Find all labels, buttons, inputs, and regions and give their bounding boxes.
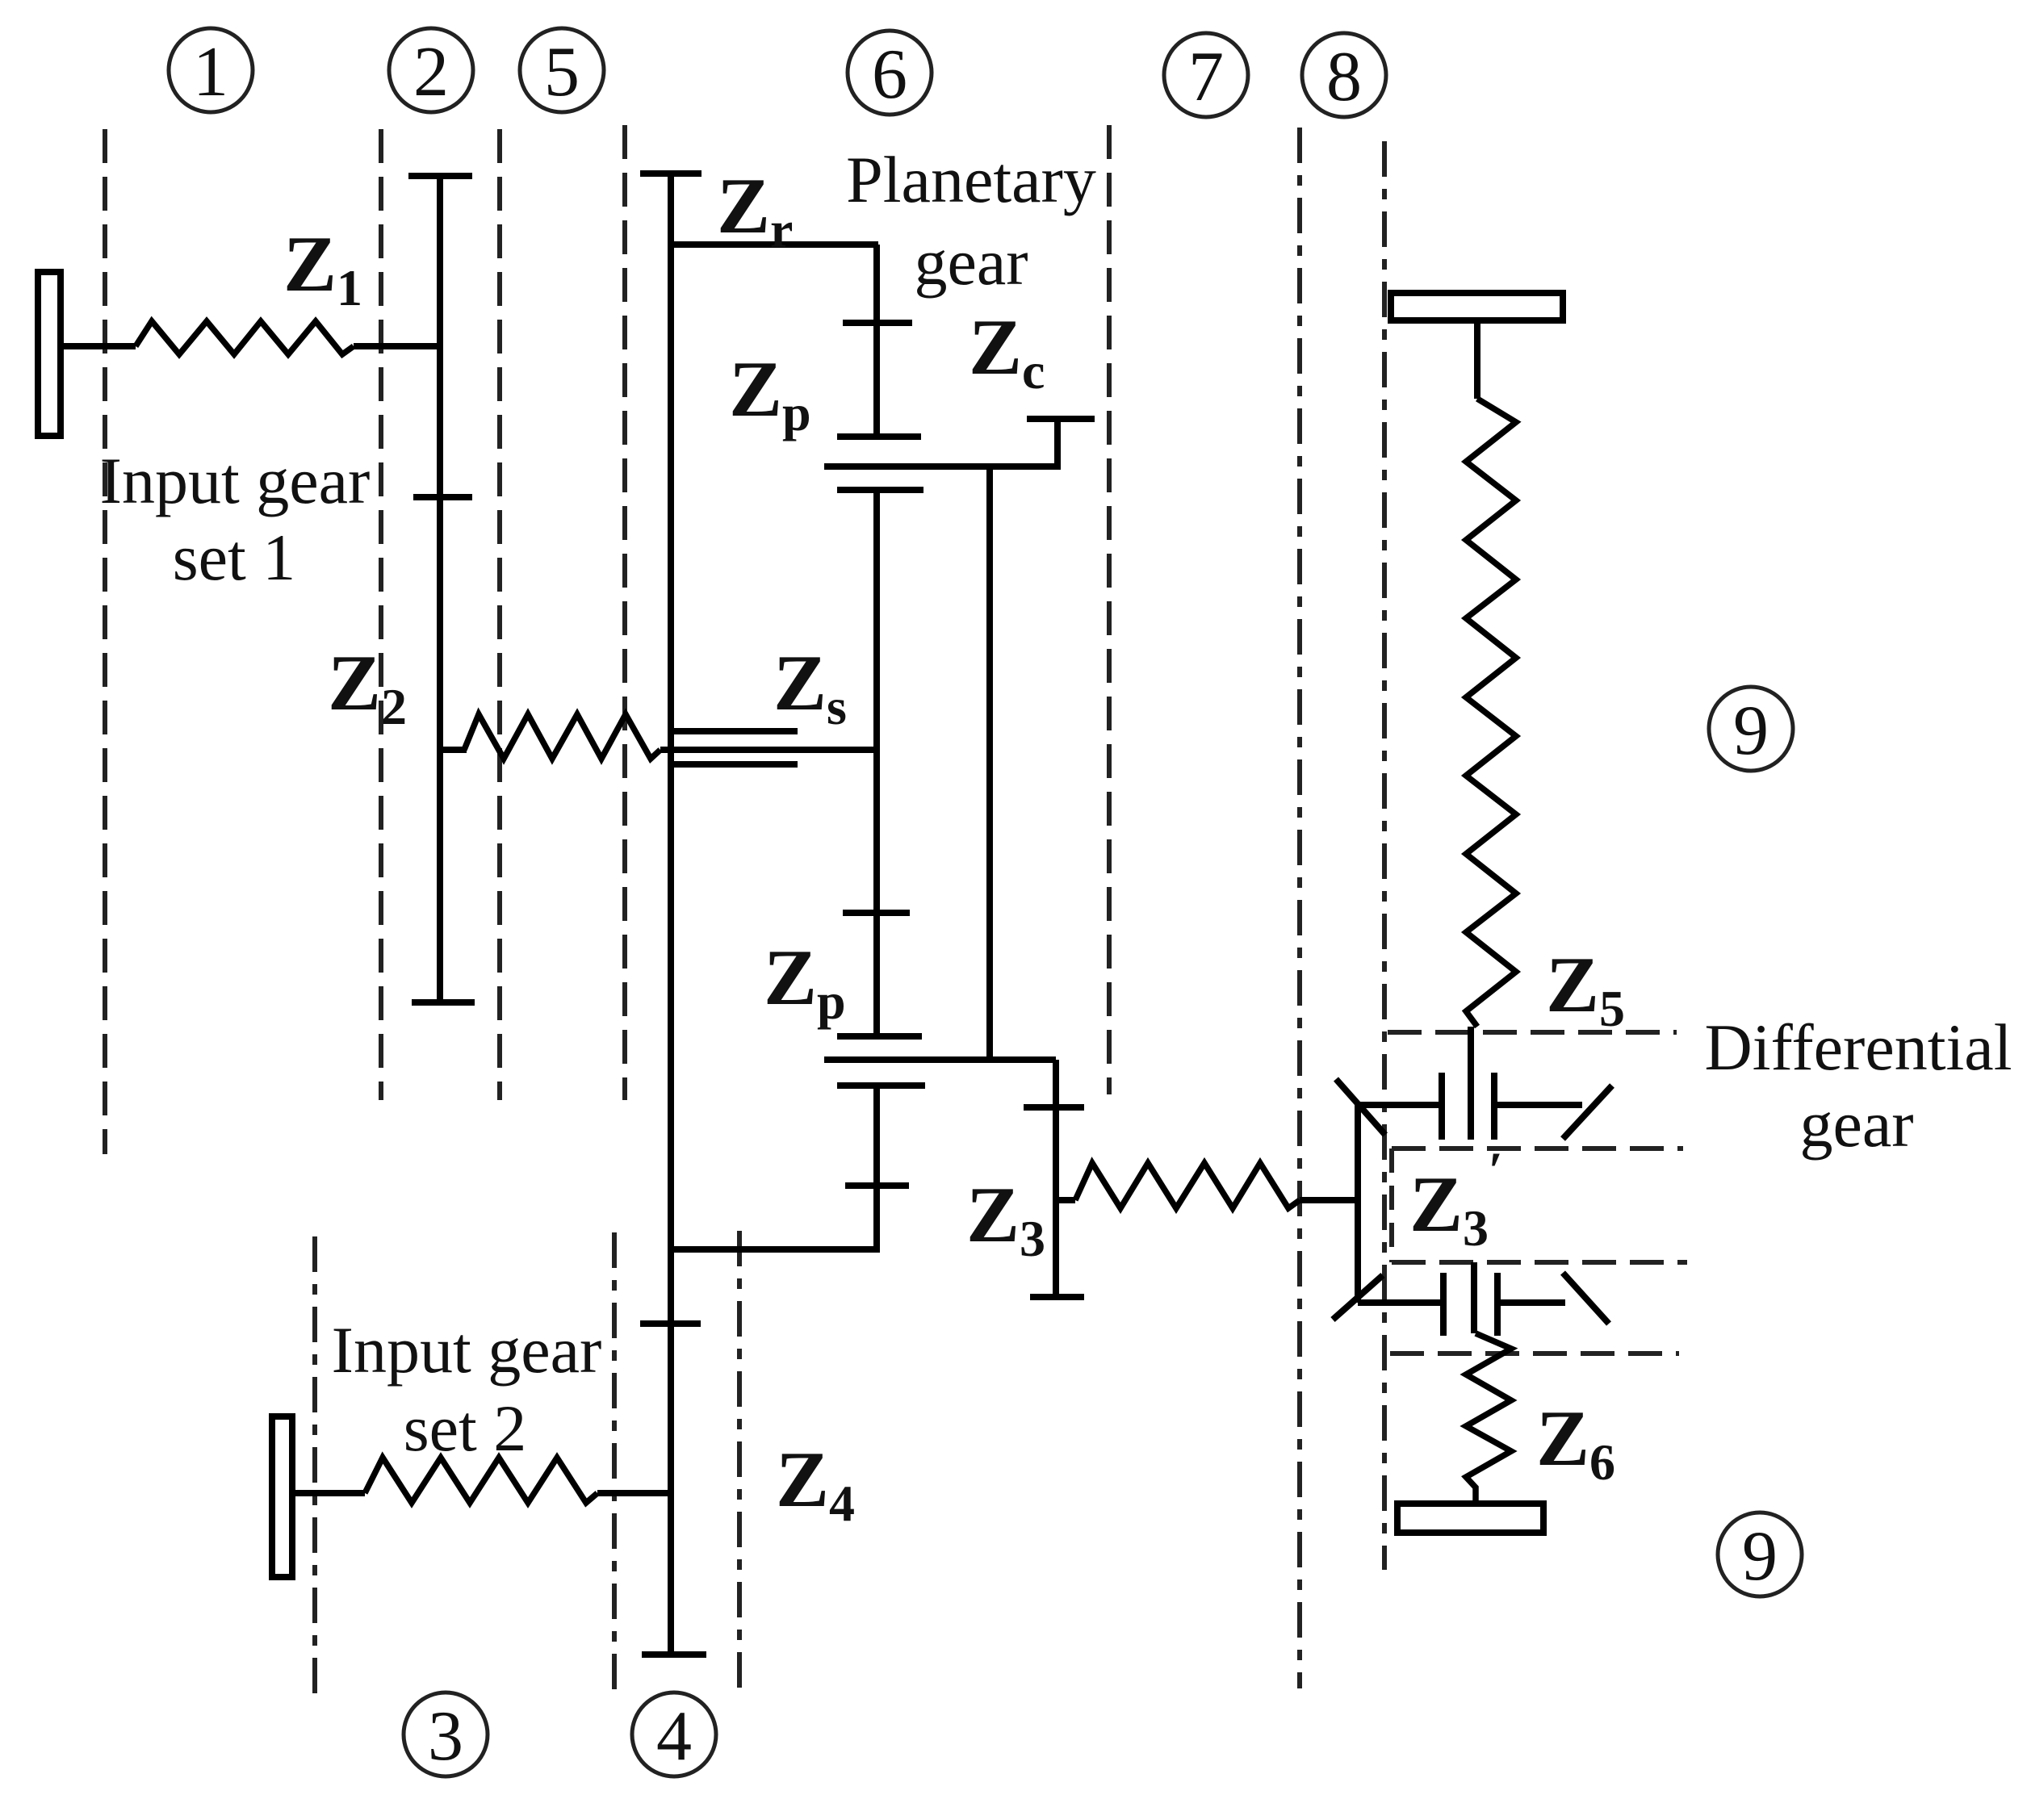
- differential top-left bevel diagonal: [1336, 1079, 1385, 1135]
- value label Zp lower: [764, 934, 846, 1030]
- svg-text:8: 8: [1326, 38, 1362, 116]
- node label circled 6: [848, 31, 932, 115]
- shaft axis 8 dashed line: [1382, 141, 1387, 1570]
- svg-text:set 1: set 1: [173, 521, 296, 594]
- upper bevel mesh right plate: [1491, 1073, 1497, 1140]
- svg-text:Input gear: Input gear: [100, 444, 371, 517]
- shaft 4 line: [668, 174, 674, 1655]
- shaft axis 7 dashed line: [1297, 128, 1302, 1688]
- svg-text:5: 5: [544, 33, 580, 111]
- carrier upper bearing top plate: [837, 433, 921, 440]
- svg-text:6: 6: [872, 36, 907, 114]
- node label circled 7: [1164, 33, 1248, 117]
- value label Z3 prime: [1409, 1141, 1503, 1257]
- wire spring Z5 to bevel mesh: [1468, 1027, 1474, 1140]
- value label Zs: [773, 639, 847, 735]
- spring mesh Z5: [1466, 399, 1516, 1027]
- spring mesh Z3-Z3': [1075, 1163, 1300, 1208]
- value label Z6: [1536, 1395, 1615, 1491]
- value label Z3: [966, 1171, 1045, 1267]
- node label circled 9: [1718, 1512, 1802, 1596]
- shaft axis 6 dashed line: [1107, 125, 1112, 1094]
- value label Z1: [283, 220, 362, 316]
- spring mesh input set 2: [365, 1458, 597, 1503]
- spring mesh Z1: [136, 321, 354, 354]
- output wall top: [1391, 293, 1563, 320]
- carrier lower arm line: [824, 1056, 1056, 1063]
- svg-text:7: 7: [1188, 38, 1224, 116]
- wire spring to differential: [1300, 1197, 1358, 1203]
- planet gear line upper segment: [873, 490, 880, 1036]
- wire wall to spring Z5: [1474, 320, 1480, 399]
- text Differential gear: [1705, 1010, 2012, 1161]
- shaft 2 top end bar: [408, 173, 472, 179]
- svg-text:Planetary: Planetary: [846, 143, 1096, 216]
- spring mesh Z6: [1466, 1333, 1511, 1504]
- shaft 2 bottom end bar: [412, 999, 475, 1006]
- wire shaft 4 to planet line: [671, 1246, 880, 1253]
- carrier upper bearing bottom plate: [837, 487, 923, 493]
- input wall 1: [38, 272, 61, 436]
- node label circled 1: [169, 28, 253, 112]
- node label circled 9: [1709, 687, 1793, 771]
- svg-text:gear: gear: [914, 225, 1028, 299]
- svg-text:9: 9: [1733, 692, 1769, 770]
- value label Z5: [1546, 941, 1625, 1037]
- svg-text:set 2: set 2: [404, 1391, 527, 1465]
- carrier Zc end bar: [1027, 416, 1095, 422]
- shaft axis 5 left dashed line: [497, 129, 502, 1100]
- output wall bottom: [1397, 1504, 1543, 1533]
- gear Z3 tick: [1024, 1104, 1084, 1111]
- shaft 4 bottom end bar: [642, 1651, 706, 1658]
- svg-text:1: 1: [193, 33, 228, 111]
- differential top rail left: [1358, 1102, 1440, 1108]
- node label circled 8: [1302, 33, 1386, 117]
- ring gear Zr top link: [669, 241, 878, 248]
- wire shaft 2 to spring Z2: [440, 747, 467, 753]
- shaft axis 2 dashed line: [379, 129, 383, 1100]
- shaft axis 5 right dashed line: [622, 125, 627, 1100]
- gear mesh tick lower Zp-Z4: [845, 1182, 909, 1189]
- shaft axis 3 dashed line: [312, 1236, 317, 1695]
- differential top rail right: [1494, 1102, 1582, 1108]
- carrier Zc stem: [1054, 419, 1061, 467]
- gear mesh tick Zr-Zp: [843, 320, 912, 326]
- node label circled 5: [520, 28, 604, 112]
- ring gear vertical line: [873, 245, 880, 437]
- node label circled 4: [632, 1692, 716, 1776]
- differential bottom rail right: [1497, 1299, 1565, 1306]
- value label Z2: [328, 639, 407, 735]
- differential top dashed boundary: [1388, 1030, 1677, 1035]
- svg-text:3: 3: [428, 1697, 463, 1776]
- shaft axis 4 right dashed line: [737, 1231, 742, 1688]
- differential bottom-left bevel diagonal: [1333, 1275, 1383, 1320]
- planet gear line lower segment: [873, 1086, 880, 1252]
- sun bearing upper plate: [668, 728, 798, 734]
- upper bevel mesh left plate: [1439, 1073, 1445, 1140]
- differential upper inner dashed boundary: [1392, 1146, 1683, 1151]
- text Planetary gear: [846, 143, 1096, 299]
- node label circled 3: [404, 1692, 488, 1776]
- differential top-right bevel diagonal: [1563, 1086, 1612, 1139]
- svg-text:Differential: Differential: [1705, 1010, 2012, 1084]
- sun shaft line Zs: [660, 747, 877, 753]
- wire bevel mesh to spring Z6: [1471, 1262, 1477, 1333]
- shaft axis 4 dashed line: [612, 1232, 617, 1695]
- gear Z3 shaft end bar: [1030, 1294, 1084, 1300]
- wire Z3 to spring: [1056, 1197, 1075, 1203]
- wire spring to shaft 4: [597, 1490, 671, 1496]
- lower bevel mesh left plate: [1440, 1273, 1447, 1336]
- svg-text:9: 9: [1742, 1517, 1778, 1596]
- svg-text:gear: gear: [1799, 1087, 1913, 1161]
- node label circled 2: [389, 28, 473, 112]
- value label Z4: [776, 1436, 855, 1532]
- shaft 4 top end bar: [640, 170, 701, 177]
- svg-text:4: 4: [656, 1697, 692, 1776]
- wire input 2 stub: [292, 1490, 365, 1496]
- differential bottom rail left: [1358, 1299, 1443, 1306]
- gear Z4 tick on shaft 4: [640, 1320, 701, 1327]
- gear Z3 shaft line: [1053, 1060, 1059, 1297]
- gear Z3' dashed box left edge: [1389, 1148, 1394, 1262]
- shaft 2 line: [437, 176, 443, 1002]
- carrier vertical link: [986, 467, 993, 1060]
- gear Z1 tick on shaft 2: [413, 494, 472, 500]
- value label Zp upper: [729, 345, 811, 441]
- wire spring Z1 to shaft 2: [354, 343, 440, 349]
- shaft axis 1 dashed line: [103, 129, 107, 1154]
- carrier arm line: [824, 463, 1061, 470]
- lower bevel mesh right plate: [1494, 1273, 1501, 1336]
- differential bottom-right bevel diagonal: [1563, 1273, 1609, 1324]
- differential lower inner dashed boundary: [1392, 1260, 1687, 1265]
- carrier lower bearing bottom plate: [837, 1082, 925, 1089]
- svg-text:Input gear: Input gear: [332, 1313, 602, 1387]
- spring mesh Z2: [464, 714, 660, 759]
- sun bearing lower plate: [668, 761, 798, 768]
- value label Zr: [717, 162, 793, 258]
- carrier lower bearing top plate: [837, 1033, 922, 1040]
- differential frame left line: [1355, 1105, 1361, 1303]
- text Input gear set 1: [100, 444, 371, 594]
- differential bottom dashed boundary: [1390, 1351, 1679, 1356]
- text Input gear set 2: [332, 1313, 602, 1465]
- value label Zc: [969, 303, 1045, 400]
- input wall 2: [272, 1416, 292, 1577]
- gear mesh tick Zp-Zs: [843, 910, 910, 916]
- wire input 1 stub: [61, 343, 136, 349]
- svg-text:2: 2: [413, 33, 449, 111]
